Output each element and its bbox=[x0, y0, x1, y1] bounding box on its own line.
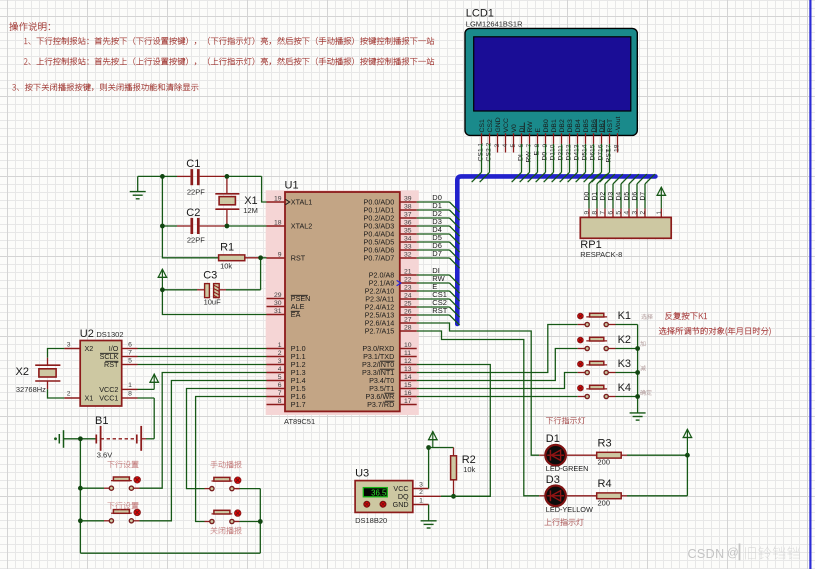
svg-text:P0.7/AD7: P0.7/AD7 bbox=[364, 254, 395, 263]
svg-text:D1: D1 bbox=[546, 433, 560, 445]
svg-text:6: 6 bbox=[278, 382, 282, 389]
svg-text:C1: C1 bbox=[186, 158, 200, 170]
svg-text:VCC2: VCC2 bbox=[99, 385, 118, 394]
svg-text:15: 15 bbox=[404, 382, 412, 389]
svg-text:D5: D5 bbox=[624, 192, 631, 201]
svg-text:28: 28 bbox=[404, 325, 412, 332]
svg-text:D7: D7 bbox=[640, 192, 647, 201]
svg-text:DB6: DB6 bbox=[591, 119, 598, 132]
svg-text:D6: D6 bbox=[589, 152, 596, 161]
svg-text:12M: 12M bbox=[243, 206, 258, 215]
svg-text:2: 2 bbox=[278, 350, 282, 357]
svg-text:37: 37 bbox=[404, 212, 412, 219]
svg-text:K3: K3 bbox=[618, 358, 631, 370]
svg-text:8: 8 bbox=[592, 211, 599, 215]
svg-text:CS1: CS1 bbox=[477, 148, 484, 161]
svg-text:RW: RW bbox=[525, 151, 532, 163]
svg-text:17: 17 bbox=[404, 398, 412, 405]
svg-text:C2: C2 bbox=[186, 207, 200, 219]
svg-text:GND: GND bbox=[393, 500, 409, 509]
svg-text:D3: D3 bbox=[565, 152, 572, 161]
svg-text:18: 18 bbox=[614, 144, 621, 152]
svg-text:1: 1 bbox=[419, 497, 423, 504]
svg-text:3: 3 bbox=[278, 358, 282, 365]
svg-text:18: 18 bbox=[274, 220, 282, 227]
svg-text:D0: D0 bbox=[584, 192, 591, 201]
svg-text:22PF: 22PF bbox=[187, 187, 205, 196]
svg-text:DS1302: DS1302 bbox=[96, 330, 123, 339]
svg-text:1: 1 bbox=[278, 342, 282, 349]
svg-text:DI: DI bbox=[519, 126, 526, 133]
svg-text:25: 25 bbox=[404, 301, 412, 308]
svg-text:X2: X2 bbox=[85, 344, 94, 353]
svg-text:2: 2 bbox=[67, 391, 71, 398]
svg-text:DI: DI bbox=[517, 154, 524, 161]
svg-text:32768Hz: 32768Hz bbox=[16, 385, 46, 394]
svg-text:13: 13 bbox=[404, 366, 412, 373]
svg-text:2: 2 bbox=[640, 211, 647, 215]
svg-text:3.6V: 3.6V bbox=[97, 451, 112, 460]
svg-text:9: 9 bbox=[278, 252, 282, 259]
svg-text:1: 1 bbox=[477, 143, 484, 147]
svg-text:2: 2 bbox=[419, 489, 423, 496]
svg-text:34: 34 bbox=[404, 236, 412, 243]
svg-text:U3: U3 bbox=[355, 467, 369, 479]
svg-text:2: 2 bbox=[485, 143, 492, 147]
svg-text:26: 26 bbox=[404, 309, 412, 316]
svg-text:U2: U2 bbox=[80, 328, 94, 340]
svg-text:32: 32 bbox=[404, 252, 412, 259]
svg-text:U1: U1 bbox=[285, 180, 299, 192]
svg-text:DB5: DB5 bbox=[583, 119, 590, 132]
svg-text:6: 6 bbox=[608, 211, 615, 215]
svg-text:RST: RST bbox=[605, 149, 612, 163]
svg-text:CS1: CS1 bbox=[479, 119, 486, 132]
svg-text:D3: D3 bbox=[608, 192, 615, 201]
svg-text:E: E bbox=[533, 151, 540, 156]
svg-text:C3: C3 bbox=[203, 270, 217, 282]
svg-text:24: 24 bbox=[404, 293, 412, 300]
svg-text:D5: D5 bbox=[581, 152, 588, 161]
svg-text:P1.7: P1.7 bbox=[291, 400, 306, 409]
svg-text:8: 8 bbox=[128, 391, 132, 398]
svg-text:RST: RST bbox=[432, 306, 447, 315]
svg-text:22PF: 22PF bbox=[187, 235, 205, 244]
svg-text:LGM12641BS1R: LGM12641BS1R bbox=[466, 20, 523, 29]
svg-text:29: 29 bbox=[274, 292, 282, 299]
svg-text:3: 3 bbox=[494, 144, 501, 148]
svg-text:200: 200 bbox=[598, 498, 611, 507]
svg-text:DB1: DB1 bbox=[551, 119, 558, 132]
svg-text:10uF: 10uF bbox=[204, 297, 222, 306]
svg-text:VCC: VCC bbox=[503, 118, 510, 132]
svg-text:E: E bbox=[535, 128, 542, 133]
svg-text:D0: D0 bbox=[541, 152, 548, 161]
svg-text:D1: D1 bbox=[549, 152, 556, 161]
svg-text:DB3: DB3 bbox=[567, 119, 574, 132]
svg-text:LED-GREEN: LED-GREEN bbox=[546, 464, 589, 473]
svg-text:3: 3 bbox=[419, 481, 423, 488]
svg-text:1: 1 bbox=[656, 211, 663, 215]
svg-text:3: 3 bbox=[67, 341, 71, 348]
svg-text:DB7: DB7 bbox=[599, 119, 606, 132]
svg-text:DB0: DB0 bbox=[543, 119, 550, 132]
svg-text:D1: D1 bbox=[592, 192, 599, 201]
svg-text:-Vout: -Vout bbox=[615, 117, 622, 133]
svg-text:4: 4 bbox=[278, 366, 282, 373]
svg-text:K4: K4 bbox=[618, 382, 631, 394]
svg-text:RW: RW bbox=[527, 121, 534, 133]
svg-text:16: 16 bbox=[404, 390, 412, 397]
svg-text:3: 3 bbox=[632, 211, 639, 215]
svg-text:DB4: DB4 bbox=[575, 119, 582, 132]
svg-text:R4: R4 bbox=[598, 478, 612, 490]
svg-text:AT89C51: AT89C51 bbox=[284, 417, 315, 426]
svg-text:DS18B20: DS18B20 bbox=[355, 516, 387, 525]
svg-text:LCD1: LCD1 bbox=[466, 8, 494, 20]
svg-text:8: 8 bbox=[278, 398, 282, 405]
svg-text:21: 21 bbox=[404, 269, 412, 276]
svg-text:7: 7 bbox=[128, 349, 132, 356]
svg-text:7: 7 bbox=[278, 390, 282, 397]
svg-text:19: 19 bbox=[274, 196, 282, 203]
svg-text:LED-YELLOW: LED-YELLOW bbox=[546, 505, 593, 514]
svg-text:V0: V0 bbox=[511, 124, 518, 133]
svg-text:38: 38 bbox=[404, 204, 412, 211]
svg-text:D2: D2 bbox=[600, 192, 607, 201]
svg-text:22: 22 bbox=[404, 277, 412, 284]
svg-text:D2: D2 bbox=[557, 152, 564, 161]
svg-text:10k: 10k bbox=[220, 261, 232, 270]
svg-text:23: 23 bbox=[404, 285, 412, 292]
svg-text:39: 39 bbox=[404, 196, 412, 203]
svg-text:5: 5 bbox=[616, 211, 623, 215]
svg-text:4: 4 bbox=[624, 211, 631, 215]
svg-text:35: 35 bbox=[404, 228, 412, 235]
svg-text:5: 5 bbox=[128, 357, 132, 364]
svg-text:10k: 10k bbox=[463, 465, 475, 474]
svg-text:200: 200 bbox=[598, 458, 611, 467]
svg-text:31: 31 bbox=[274, 308, 282, 315]
svg-text:X1: X1 bbox=[85, 394, 94, 403]
svg-text:CS2: CS2 bbox=[487, 119, 494, 132]
svg-text:D4: D4 bbox=[573, 152, 580, 161]
svg-text:X2: X2 bbox=[16, 366, 29, 378]
svg-text:4: 4 bbox=[502, 144, 509, 148]
svg-text:XTAL1: XTAL1 bbox=[291, 198, 312, 207]
svg-text:11: 11 bbox=[404, 350, 411, 357]
svg-text:RST: RST bbox=[607, 119, 614, 133]
svg-text:P2.7/A15: P2.7/A15 bbox=[365, 327, 395, 336]
svg-text:9: 9 bbox=[584, 211, 591, 215]
svg-text:XTAL2: XTAL2 bbox=[291, 222, 312, 231]
svg-text:30: 30 bbox=[274, 300, 282, 307]
svg-text:VCC1: VCC1 bbox=[99, 394, 118, 403]
svg-text:D7: D7 bbox=[597, 152, 604, 161]
svg-text:DB2: DB2 bbox=[559, 119, 566, 132]
svg-text:GND: GND bbox=[495, 117, 502, 132]
svg-text:36.5: 36.5 bbox=[371, 489, 387, 498]
svg-text:D4: D4 bbox=[616, 192, 623, 201]
svg-text:7: 7 bbox=[600, 211, 607, 215]
svg-text:1: 1 bbox=[128, 382, 132, 389]
svg-text:RST: RST bbox=[291, 254, 306, 263]
svg-text:@: @ bbox=[727, 548, 739, 560]
svg-text:K1: K1 bbox=[618, 310, 631, 322]
svg-text:10: 10 bbox=[404, 342, 412, 349]
svg-text:D3: D3 bbox=[546, 474, 560, 486]
svg-text:CS2: CS2 bbox=[485, 148, 492, 161]
svg-text:5: 5 bbox=[278, 374, 282, 381]
svg-text:27: 27 bbox=[404, 317, 412, 324]
svg-text:R1: R1 bbox=[220, 242, 234, 254]
svg-text:D7: D7 bbox=[432, 249, 442, 258]
svg-text:33: 33 bbox=[404, 244, 412, 251]
svg-text:K2: K2 bbox=[618, 334, 631, 346]
svg-text:5: 5 bbox=[510, 144, 517, 148]
svg-text:CSDN: CSDN bbox=[688, 547, 725, 561]
svg-text:6: 6 bbox=[128, 341, 132, 348]
svg-text:RESPACK-8: RESPACK-8 bbox=[580, 250, 622, 259]
svg-text:12: 12 bbox=[404, 358, 412, 365]
svg-text:RP1: RP1 bbox=[580, 239, 601, 251]
svg-text:B1: B1 bbox=[95, 415, 108, 427]
svg-text:D6: D6 bbox=[632, 192, 639, 201]
svg-text:36: 36 bbox=[404, 220, 412, 227]
svg-text:14: 14 bbox=[404, 374, 412, 381]
svg-text:R3: R3 bbox=[598, 438, 612, 450]
